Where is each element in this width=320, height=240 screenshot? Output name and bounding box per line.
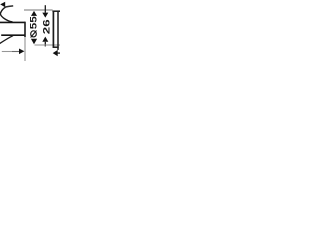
leader tail wire — [5, 6, 13, 7]
hook curl outline — [0, 7, 12, 22]
upper arm line — [0, 21, 25, 23]
dim A label diameter circle — [31, 31, 37, 37]
fixture bottom edge — [53, 46, 59, 48]
bottom-left arrowhead — [19, 49, 24, 55]
dim A upper arrowhead — [31, 11, 37, 16]
dim B upper arrowhead — [42, 13, 48, 18]
dim B upper wire — [44, 5, 46, 13]
dim A label diameter slash — [31, 31, 37, 38]
bottom reference line — [35, 44, 61, 46]
dim A lower arrowhead — [31, 39, 37, 44]
bottom-right tail wire — [57, 52, 60, 54]
fixture top edge — [52, 10, 60, 12]
dim B lower wire — [44, 42, 46, 47]
background — [0, 0, 60, 61]
bottom-right arrowhead — [53, 50, 58, 56]
lower arm line — [1, 34, 25, 36]
top reference line — [24, 9, 53, 11]
bottom-left dimension wire (outer segment) — [2, 51, 12, 53]
leader arrowhead — [0, 2, 5, 8]
svg-text:55: 55 — [29, 16, 39, 29]
front plane extension line — [24, 37, 26, 61]
bottom-left dimension wire (inner segment) — [12, 51, 20, 53]
dim B lower arrowhead — [42, 37, 48, 42]
lower diagonal outline — [0, 36, 13, 44]
wall line — [57, 11, 59, 50]
svg-text:26: 26 — [42, 19, 52, 34]
front face line — [24, 22, 26, 37]
fixture front bar — [52, 11, 54, 48]
